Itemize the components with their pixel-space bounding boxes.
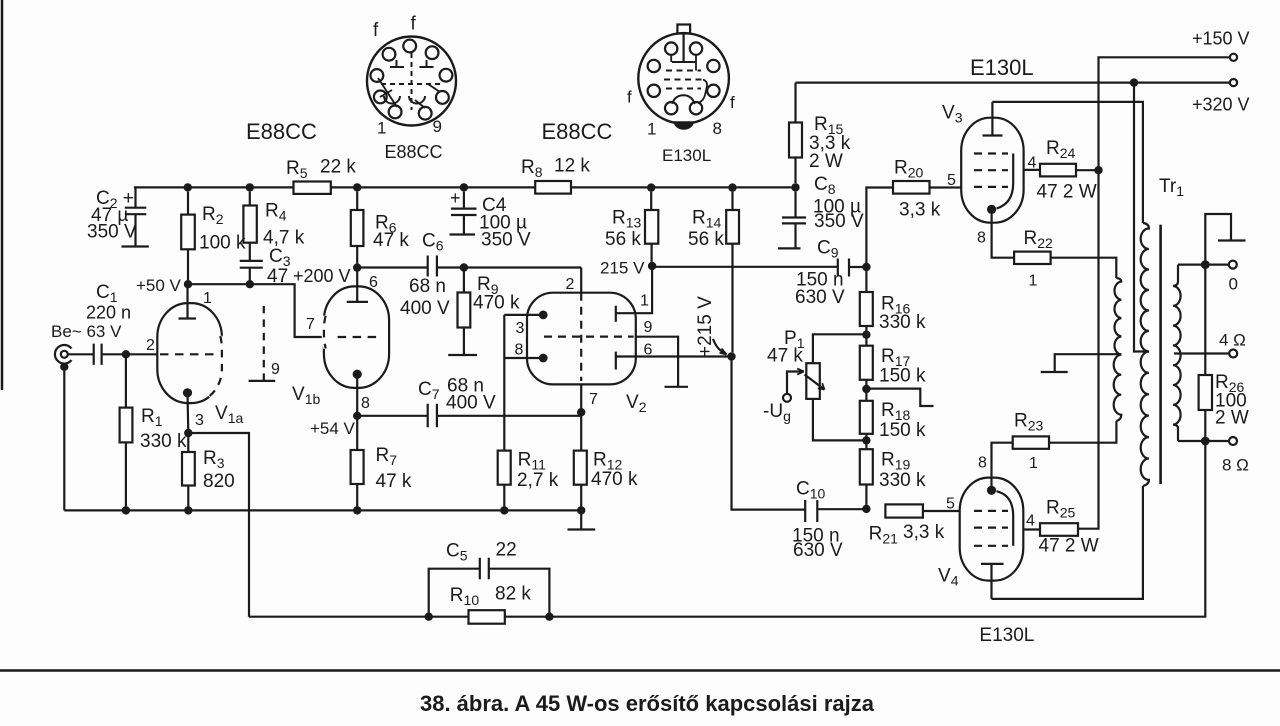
socket E88CC pin 9 [419, 107, 432, 120]
svg-text:7: 7 [306, 316, 315, 333]
svg-text:2,7 k: 2,7 k [517, 470, 559, 491]
ground bar R9 [448, 354, 477, 356]
svg-text:8: 8 [978, 455, 987, 472]
svg-text:6: 6 [644, 342, 653, 359]
V4 grid g3 dashed [974, 545, 1008, 547]
svg-text:+215 V: +215 V [695, 296, 716, 357]
svg-text:4 Ω: 4 Ω [1219, 331, 1246, 350]
node jack ground [60, 363, 68, 371]
resistor R7 [356, 416, 358, 511]
V2 plate bar pin6 [615, 352, 617, 370]
svg-text:350 V: 350 V [481, 230, 531, 251]
capacitor C3 [240, 261, 263, 280]
svg-text:R25: R25 [1046, 498, 1076, 521]
svg-text:8: 8 [977, 230, 986, 247]
wire V3 pin4 to R24 [1024, 169, 1040, 171]
svg-text:38. ábra. A 45 W-os erősítő ka: 38. ábra. A 45 W-os erősítő kapcsolási r… [420, 691, 875, 716]
svg-text:8 Ω: 8 Ω [1222, 456, 1249, 475]
svg-text:9: 9 [644, 319, 653, 336]
svg-text:R2: R2 [202, 204, 224, 227]
wire pin9 to ground [636, 337, 688, 387]
svg-text:R24: R24 [1046, 138, 1076, 161]
tube V1b plate pin6 [347, 268, 368, 302]
svg-text:9: 9 [433, 117, 442, 136]
svg-text:E130L: E130L [662, 146, 711, 165]
socket E88CC pin 2 [383, 48, 396, 61]
P1 slider arrow [805, 375, 825, 390]
socket E88CC pin left [371, 69, 384, 82]
svg-text:56 k: 56 k [605, 229, 641, 250]
wire R20 to V3 pin5 [930, 186, 962, 188]
node rail R7 [353, 506, 361, 514]
svg-text:+54 V: +54 V [310, 419, 356, 438]
resistor R10 [469, 610, 505, 624]
transformer primary winding upper [1141, 223, 1149, 352]
svg-text:1: 1 [640, 293, 649, 310]
V3 grid g3 dashed [974, 152, 1008, 154]
svg-text:150 k: 150 k [879, 366, 926, 387]
wire V3 pin8 to R22 [992, 209, 1015, 257]
V2 grid-b dashed [544, 336, 634, 338]
P1 wiper to -Ug [787, 372, 804, 394]
tube V1a cathode dot [183, 388, 192, 397]
wire V4 pin4 to R25 [1023, 528, 1040, 530]
svg-text:630 V: 630 V [793, 540, 843, 561]
capacitor C6 [428, 256, 437, 277]
tube V1a grid dashed [160, 353, 219, 355]
svg-text:3,3 k: 3,3 k [903, 522, 945, 543]
resistor R9 [463, 268, 465, 355]
node R17/R18 [862, 385, 870, 393]
svg-text:22 k: 22 k [320, 157, 356, 178]
feedback winding upper [1114, 278, 1121, 355]
svg-text:R23: R23 [1014, 411, 1044, 434]
ground symbol main rail [568, 510, 596, 529]
V4 grid g2 dashed [974, 526, 1008, 528]
wire secondary top to 0 terminal [1178, 264, 1229, 266]
resistor R11 [498, 451, 511, 485]
svg-text:630 V: 630 V [795, 287, 845, 308]
svg-text:E88CC: E88CC [385, 142, 443, 162]
svg-text:0: 0 [1229, 275, 1238, 294]
svg-text:82 k: 82 k [495, 584, 531, 605]
tube socket E88CC outline [367, 37, 456, 126]
svg-text:2: 2 [566, 276, 575, 293]
wire pin3 to feedback drop [188, 433, 249, 617]
tube socket E130L outline [638, 33, 729, 124]
node rail R11 [500, 506, 508, 514]
svg-text:E88CC: E88CC [542, 119, 613, 144]
terminal -Ug [783, 394, 791, 402]
svg-text:7: 7 [589, 391, 598, 408]
svg-text:E130L: E130L [970, 55, 1034, 80]
tube V1a envelope [157, 303, 222, 403]
svg-text:820: 820 [203, 471, 235, 492]
V3 plate [983, 102, 1003, 136]
tube V4 envelope [960, 478, 1024, 581]
svg-text:470 k: 470 k [473, 293, 520, 314]
socket E88CC pin 4 [426, 46, 439, 59]
svg-text:6: 6 [369, 274, 378, 291]
svg-text:-Ug: -Ug [763, 401, 791, 424]
wire C1 to grid pin2 [102, 353, 158, 355]
secondary 4ohm tap [1174, 352, 1229, 354]
svg-text:2: 2 [146, 337, 155, 354]
V4 g3 internal tie to cathode [997, 491, 1014, 546]
svg-text:330 k: 330 k [879, 470, 926, 491]
node R24/+150 [1094, 166, 1102, 174]
stub wire R17/R18 junction [866, 389, 933, 406]
svg-text:Be~ 63 V: Be~ 63 V [51, 322, 122, 341]
svg-text:V1a: V1a [215, 403, 243, 426]
node top rail R14 [728, 183, 736, 191]
wire pin1 to 215V node [616, 266, 652, 313]
wire cathode down to R11 [503, 315, 505, 451]
resistor R26 [1204, 265, 1206, 441]
wire R23 to feedback winding bottom [1049, 421, 1116, 443]
V3 anode line to transformer [992, 102, 1143, 223]
wire jack down to ground rail [63, 367, 65, 511]
node +50V R2 [184, 280, 192, 288]
svg-text:R4: R4 [265, 201, 287, 224]
socket E88CC anode bar left [390, 60, 404, 67]
svg-text:R13: R13 [612, 208, 642, 231]
resistor R23 [1013, 436, 1049, 448]
socket E88CC pin top [403, 40, 416, 53]
feedback line to bottom [249, 441, 1205, 617]
svg-text:150 k: 150 k [879, 420, 926, 441]
capacitor C8 electrolytic [778, 192, 806, 249]
svg-text:R10: R10 [450, 585, 480, 608]
svg-text:4: 4 [1028, 155, 1037, 172]
terminal 0 [1229, 261, 1237, 269]
socket E88CC pin 7 [374, 91, 387, 104]
chassis hook at 0 terminal [1205, 214, 1245, 265]
tube V1b cathode dot [353, 370, 362, 379]
svg-text:12 k: 12 k [554, 156, 590, 177]
svg-text:330 k: 330 k [140, 431, 187, 452]
socket E130L grid dashes [666, 70, 701, 72]
V4 grid g1 dashed [974, 510, 1008, 512]
svg-text:R3: R3 [203, 448, 225, 471]
+320V rail from R15 [796, 83, 1231, 123]
svg-text:5: 5 [947, 172, 956, 189]
svg-text:C6: C6 [422, 231, 444, 254]
node R16/R17/P1 [862, 331, 870, 339]
svg-text:68 n: 68 n [409, 276, 446, 297]
resistor R21 [885, 504, 923, 517]
node C1/R1 [122, 350, 130, 358]
svg-text:1: 1 [203, 290, 212, 307]
resistor R2 [187, 192, 189, 280]
secondary winding [1173, 265, 1181, 441]
svg-text:8: 8 [713, 119, 722, 138]
wire +320 down to tap [1134, 83, 1146, 352]
svg-text:V4: V4 [938, 566, 959, 589]
svg-text:R22: R22 [1024, 228, 1054, 251]
resistor R15 [789, 123, 802, 158]
node feedback C5 right [545, 613, 553, 621]
resistor R3 [187, 433, 189, 510]
resistor R4 [249, 192, 251, 260]
svg-text:8: 8 [361, 395, 370, 412]
svg-text:350 V: 350 V [814, 211, 864, 232]
wire +50V node run [188, 284, 326, 337]
svg-text:3: 3 [195, 412, 204, 429]
node feedback C5 left [425, 613, 433, 621]
node top rail R13 [647, 183, 655, 191]
node pin8/C7/R7 [353, 412, 361, 420]
node 0 terminal [1201, 260, 1210, 269]
svg-text:47 2 W: 47 2 W [1039, 536, 1099, 557]
ground rail bottom left [64, 509, 581, 511]
resistor R18 [865, 389, 867, 440]
svg-text:R7: R7 [376, 445, 398, 468]
wire R24 to +150 line [1076, 169, 1099, 171]
potentiometer P1 [813, 334, 867, 363]
svg-text:V3: V3 [942, 103, 963, 126]
V4 anode line to transformer [992, 486, 1143, 599]
svg-text:Tr1: Tr1 [1159, 176, 1184, 199]
svg-text:100 k: 100 k [199, 233, 246, 254]
resistor R12 [574, 451, 587, 485]
socket E130L anode bar [672, 61, 696, 63]
node pin7/C7 [577, 408, 585, 416]
node +50V C3 [246, 280, 254, 288]
V2 cathode dot pin3 [539, 311, 548, 320]
svg-text:220 n: 220 n [86, 303, 131, 323]
svg-text:47 k: 47 k [373, 230, 409, 251]
capacitor C2 electrolytic [122, 187, 149, 246]
wire R22 to feedback winding top [1051, 258, 1117, 278]
svg-text:f: f [411, 14, 417, 35]
pin9 dashed stub V1 [263, 306, 265, 381]
capacitor C1 [94, 344, 102, 365]
svg-text:C8: C8 [814, 174, 836, 197]
capacitor C7 [357, 404, 581, 428]
V3 grid g2 dashed [974, 169, 1008, 171]
capacitor C5 branch [429, 569, 550, 617]
tube V1b grid dashed pin7 [338, 336, 378, 338]
resistor R16 [865, 267, 867, 335]
node R18/R19/P1 [862, 436, 870, 444]
page left edge scan line [1, 0, 4, 390]
resistor R17 [865, 335, 867, 389]
caption separator rule [0, 669, 1280, 672]
node rail R12 [577, 506, 585, 514]
socket E88CC cathode arc left [384, 96, 400, 104]
+215V pointer arrow [713, 339, 727, 355]
node R6 bottom +200V [353, 263, 361, 271]
svg-text:R5: R5 [286, 158, 308, 181]
transformer primary winding lower [1141, 352, 1149, 487]
svg-text:4: 4 [1026, 513, 1035, 530]
V4 plate [981, 564, 1004, 599]
wire V4 pin8 to R23 [992, 443, 1013, 491]
terminal 4ohm [1229, 350, 1237, 358]
socket E88CC cathode arc right [409, 96, 425, 104]
capacitor C9 [838, 259, 849, 277]
resistor R19 [865, 440, 867, 508]
svg-text:350 V: 350 V [87, 222, 137, 243]
svg-text:47 k: 47 k [376, 471, 412, 492]
node 8ohm [1201, 437, 1210, 446]
wire V1b cathode pin8 [356, 374, 358, 416]
svg-text:215 V: 215 V [600, 259, 645, 278]
terminal +150V [1230, 54, 1237, 61]
socket E130L internal links [671, 55, 707, 104]
V3 grid g1 dashed [974, 186, 1008, 188]
top supply rail wire [134, 186, 796, 188]
svg-text:+320 V: +320 V [1192, 95, 1250, 115]
svg-text:+200 V: +200 V [293, 266, 351, 286]
svg-text:2 W: 2 W [809, 151, 843, 172]
svg-text:+: + [450, 188, 461, 208]
transformer core [1159, 225, 1162, 484]
svg-text:E130L: E130L [979, 625, 1034, 646]
terminal 8ohm [1229, 437, 1237, 445]
V3 cathode dot [987, 205, 996, 214]
wire V1a cathode pin3 [186, 393, 189, 433]
resistor R20 [893, 181, 930, 194]
svg-text:C9: C9 [817, 238, 839, 261]
capacitor C5 plates [480, 558, 489, 580]
node R19/C10/R21 [862, 505, 870, 513]
node top rail R6 [353, 183, 361, 191]
svg-text:V2: V2 [626, 392, 647, 415]
resistor R22 [1014, 252, 1051, 264]
tube V1a plate [179, 284, 197, 318]
svg-text:V1b: V1b [292, 384, 320, 407]
svg-text:3: 3 [516, 320, 525, 337]
svg-text:2 W: 2 W [1215, 408, 1249, 429]
svg-text:5: 5 [946, 496, 955, 513]
svg-text:C10: C10 [796, 479, 826, 502]
socket E130L bottom key notch filled [674, 121, 695, 130]
svg-text:330 k: 330 k [879, 312, 926, 333]
svg-text:47 k: 47 k [767, 346, 803, 367]
wire R13 to node [650, 262, 653, 266]
wire V2 grid pin2 [580, 268, 582, 293]
tube V2 envelope [527, 293, 636, 385]
resistor R24 [1040, 164, 1076, 177]
node top rail C8/R15 [791, 183, 799, 191]
svg-text:1: 1 [1029, 455, 1038, 472]
wire R14 node down to C10 [732, 357, 806, 510]
socket E88CC pin 5 [440, 69, 453, 82]
wire jack to C1 [68, 353, 94, 355]
svg-text:3,3 k: 3,3 k [899, 200, 941, 221]
node pin3/R3 [184, 429, 192, 437]
resistor R8 [535, 181, 571, 194]
node +320 centre tap [1130, 78, 1138, 86]
pin9 bar [249, 380, 276, 382]
svg-text:f: f [730, 93, 735, 112]
socket E88CC internal link lines [378, 78, 440, 108]
svg-text:400 V: 400 V [446, 393, 496, 414]
node top rail C4 [460, 183, 468, 191]
socket E88CC dashed axis vertical [411, 53, 413, 110]
node C6/R9 [460, 263, 468, 271]
socket E130L cathode arc [673, 95, 694, 103]
node top rail R2 [184, 183, 192, 191]
resistor R25 [1040, 523, 1078, 536]
+150V rail [1078, 57, 1230, 528]
svg-text:470 k: 470 k [591, 469, 638, 490]
node 215V [648, 262, 656, 270]
resistor R6 [356, 192, 358, 264]
svg-text:1: 1 [377, 119, 386, 138]
resistor R5 [294, 182, 331, 194]
resistor R14 [731, 192, 733, 353]
svg-text:400 V: 400 V [400, 298, 450, 319]
socket E88CC pin 8 [436, 91, 449, 104]
svg-text:+150 V: +150 V [1192, 29, 1250, 49]
feedback winding centre tap to ground [1041, 354, 1122, 372]
capacitor C10 [805, 500, 866, 522]
wire pin8 [504, 357, 543, 359]
feedback winding lower [1114, 355, 1122, 421]
wire C6 run [357, 266, 581, 268]
node +215 plate-b [727, 352, 735, 360]
svg-text:R21: R21 [869, 524, 899, 547]
svg-text:f: f [627, 88, 632, 107]
svg-text:R20: R20 [894, 158, 924, 181]
V3 g3 internal tie to cathode [997, 154, 1014, 209]
wire C9 to node [849, 266, 866, 268]
svg-text:56 k: 56 k [688, 229, 724, 250]
node rail R1 [122, 506, 130, 514]
svg-text:1: 1 [647, 120, 656, 139]
V4 cathode dot [987, 486, 996, 495]
svg-text:+50 V: +50 V [136, 276, 182, 295]
V2 cathode dot pin8 [539, 354, 548, 363]
svg-text:8: 8 [515, 342, 524, 359]
socket E130L key [677, 25, 690, 34]
svg-text:9: 9 [271, 361, 280, 378]
svg-text:47 2 W: 47 2 W [1037, 182, 1097, 203]
V2 grid-a dashed [580, 293, 582, 381]
terminal +320V [1230, 79, 1237, 86]
svg-text:E88CC: E88CC [246, 119, 317, 144]
node rail R3 [184, 506, 192, 514]
svg-text:R1: R1 [141, 406, 163, 429]
tube V3 envelope [961, 118, 1023, 223]
resistor R1 [125, 358, 127, 510]
svg-text:47: 47 [267, 266, 288, 287]
svg-text:f: f [373, 20, 379, 41]
svg-text:R14: R14 [692, 208, 722, 231]
node C9/R16/R20 [862, 263, 870, 271]
resistor R13 [650, 192, 653, 262]
svg-text:22: 22 [496, 540, 517, 561]
socket E88CC pin 1 [389, 106, 402, 119]
wire secondary bottom to 8ohm [1178, 440, 1229, 442]
wire node up to R20 [866, 188, 893, 268]
wire pin3 [504, 314, 543, 316]
wire pin6 to +215 node [616, 355, 732, 357]
socket E130L pin ring [707, 60, 719, 72]
input jack Be [55, 345, 72, 364]
svg-text:C7: C7 [418, 379, 440, 402]
node top rail R4 [246, 183, 254, 191]
svg-text:R8: R8 [521, 157, 543, 180]
svg-text:C5: C5 [446, 541, 468, 564]
svg-text:1: 1 [1029, 273, 1038, 290]
wire 215V node to C9 [652, 266, 838, 268]
capacitor C4 electrolytic [450, 192, 477, 235]
socket E88CC dashed axis horizontal [381, 83, 442, 85]
